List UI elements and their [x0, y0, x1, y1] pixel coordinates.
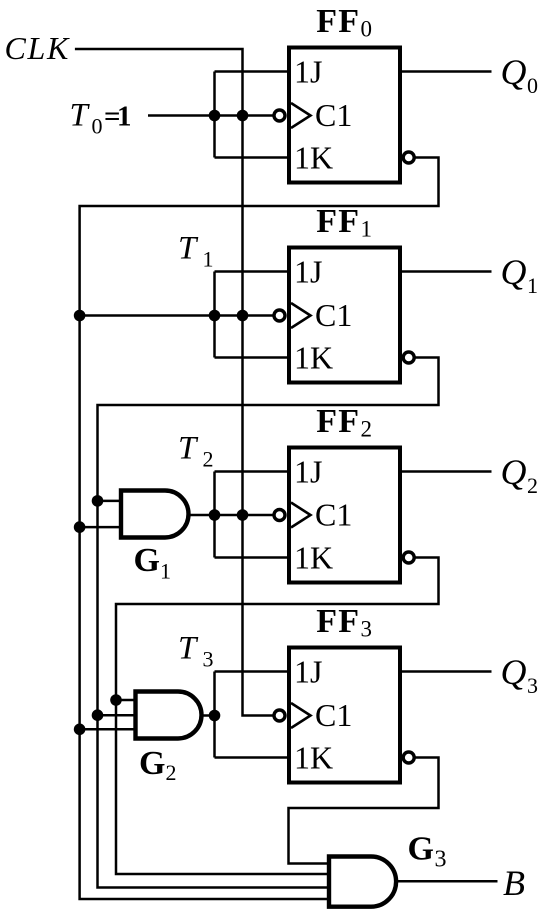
wire 1K input (FF2)	[215, 556, 290, 559]
wire T0 input to FF0 J/K and C row	[148, 114, 273, 117]
svg-text:G: G	[134, 542, 160, 579]
flip-flop FF1 body	[289, 248, 400, 383]
node junction G2 input C tap	[74, 724, 86, 736]
svg-text:2: 2	[203, 446, 214, 471]
wire G2 output to FF3 J/K tie	[201, 714, 215, 717]
svg-text:1J: 1J	[294, 254, 322, 290]
node junction G1 input A tap	[92, 495, 104, 507]
wire Q2 output	[400, 470, 492, 473]
svg-text:1J: 1J	[294, 54, 322, 90]
svg-text:1: 1	[160, 559, 171, 584]
clock edge triangle (FF0)	[291, 103, 311, 128]
AND gate G1	[121, 491, 189, 538]
wire FF0 inverted output feedback net (to T1 row, G1, G2, G3)	[80, 158, 439, 900]
inverted output bubble (FF0)	[403, 152, 414, 163]
AND gate G3	[329, 857, 396, 907]
svg-text:1: 1	[203, 246, 214, 271]
wire 1K input (FF3)	[215, 756, 290, 759]
wire Q3 output	[400, 670, 492, 673]
svg-text:Q: Q	[501, 452, 527, 492]
wire G1 input B (from FF0 feedback)	[80, 526, 123, 529]
node junction T1 tap on Q0 feedback	[74, 310, 86, 322]
svg-text:3: 3	[435, 847, 447, 873]
wire Q0 output	[400, 70, 492, 73]
wire CLK net (to all C1 via bus)	[75, 49, 273, 716]
svg-text:2: 2	[166, 760, 177, 785]
wire 1K input (FF1)	[215, 356, 290, 359]
clock edge triangle (FF2)	[291, 503, 311, 528]
node junction G2 out/JK tie	[209, 710, 221, 722]
clock edge triangle (FF3)	[291, 703, 311, 728]
svg-text:0: 0	[361, 17, 373, 42]
clock inversion bubble (FF0 C1)	[274, 110, 285, 121]
wire FF1 inverted output feedback net (to G1, G2, G3)	[98, 358, 439, 888]
flip-flop FF3 body	[289, 648, 400, 783]
wire G2 input C (from FF0 feedback)	[80, 728, 138, 731]
AND gate G2	[136, 692, 202, 739]
wire Q1 output	[400, 270, 492, 273]
inverted output bubble (FF3)	[403, 752, 414, 763]
wire J-K tie (FF3)	[213, 672, 216, 758]
svg-text:1: 1	[117, 101, 132, 133]
clock inversion bubble (FF1 C1)	[274, 310, 285, 321]
wire 1J input (FF3)	[215, 670, 290, 673]
wire G3 output B	[396, 880, 498, 883]
svg-text:1J: 1J	[294, 454, 322, 490]
svg-text:C1: C1	[315, 497, 352, 533]
node junction T1/JK tie	[209, 310, 221, 322]
node junction G2 input B tap	[92, 709, 104, 721]
wire T1 net: FF0 feedback row to FF1 C row	[80, 314, 273, 317]
inverted output bubble (FF1)	[403, 352, 414, 363]
svg-text:3: 3	[203, 646, 214, 671]
svg-text:0: 0	[92, 114, 103, 139]
wire 1J input (FF2)	[215, 470, 290, 473]
svg-text:3: 3	[527, 673, 538, 698]
svg-text:1K: 1K	[294, 140, 333, 176]
svg-text:C1: C1	[315, 697, 352, 733]
svg-text:T: T	[178, 630, 199, 666]
clock edge triangle (FF1)	[291, 303, 311, 328]
wire J-K tie (FF1)	[213, 272, 216, 358]
flip-flop FF0 body	[289, 48, 400, 183]
node junction G2 input A tap	[110, 694, 122, 706]
flip-flop FF2 body	[289, 448, 400, 583]
svg-text:2: 2	[361, 417, 373, 442]
svg-text:2: 2	[527, 473, 538, 498]
clock inversion bubble (FF3 C1)	[274, 710, 285, 721]
svg-text:B: B	[503, 863, 525, 903]
svg-text:CLK: CLK	[5, 30, 71, 66]
svg-text:T: T	[70, 98, 91, 134]
svg-text:1J: 1J	[294, 654, 322, 690]
svg-text:0: 0	[527, 73, 538, 98]
svg-text:1K: 1K	[294, 340, 333, 376]
wire J-K tie (FF0)	[213, 72, 216, 158]
node junction G1 input B tap	[74, 521, 86, 533]
node junction T2/CLK bus	[237, 509, 249, 521]
svg-text:Q: Q	[501, 52, 527, 92]
wire 1J input (FF0)	[215, 70, 290, 73]
inverted output bubble (FF2)	[403, 552, 414, 563]
node junction T2/JK tie	[209, 509, 221, 521]
wire FF2 inverted output feedback net (to G2, G3)	[116, 558, 439, 875]
svg-text:G: G	[139, 745, 165, 782]
svg-text:FF: FF	[316, 403, 360, 440]
wire 1J input (FF1)	[215, 270, 290, 273]
svg-text:T: T	[178, 430, 199, 466]
node junction T1/CLK bus	[237, 310, 249, 322]
wire G2 input B (from FF1 feedback)	[98, 714, 138, 717]
svg-text:G: G	[408, 831, 434, 868]
svg-text:FF: FF	[316, 3, 360, 40]
svg-text:FF: FF	[316, 603, 360, 640]
svg-text:Q: Q	[501, 252, 527, 292]
svg-text:FF: FF	[316, 203, 360, 240]
svg-text:T: T	[178, 230, 199, 266]
wire J-K tie (FF2)	[213, 472, 216, 558]
svg-text:1: 1	[361, 217, 373, 242]
svg-text:Q: Q	[501, 652, 527, 692]
svg-text:C1: C1	[315, 297, 352, 333]
wire G1 input A (from FF1 feedback)	[98, 500, 124, 503]
svg-text:1K: 1K	[294, 740, 333, 776]
wire FF3 inverted output feedback net (to G3)	[289, 758, 439, 864]
clock inversion bubble (FF2 C1)	[274, 510, 285, 521]
wire 1K input (FF0)	[215, 156, 290, 159]
node junction T0/JK tie	[209, 110, 221, 122]
svg-text:1K: 1K	[294, 540, 333, 576]
svg-text:1: 1	[527, 273, 538, 298]
svg-text:3: 3	[361, 617, 373, 642]
node junction T0/CLK bus	[237, 110, 249, 122]
wire G2 input A (from FF2 feedback)	[116, 699, 138, 702]
wire T2 net: G1 output to FF2 C row	[188, 514, 273, 517]
svg-text:C1: C1	[315, 97, 352, 133]
